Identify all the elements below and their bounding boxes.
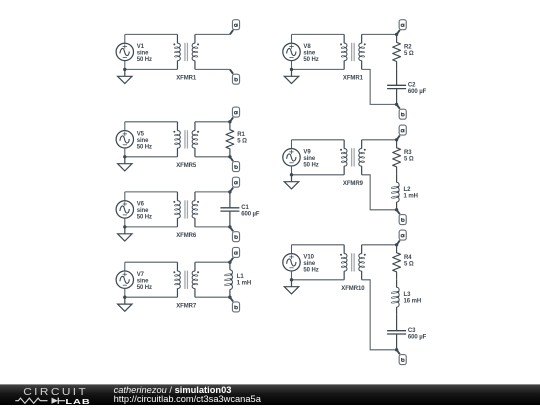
wire source V8 vertical bottom	[291, 61, 293, 70]
node a flag	[397, 20, 407, 35]
wire secondary top	[195, 261, 230, 263]
junction node a	[395, 33, 398, 36]
junction at V5 minus	[123, 155, 126, 158]
svg-text:XFMR1: XFMR1	[343, 76, 364, 82]
wire bottom left V9	[292, 174, 345, 176]
wire source V7 vertical bottom	[124, 288, 126, 297]
XFMR6 primary phase dot	[173, 201, 175, 203]
node b flag	[230, 297, 240, 312]
capacitor C2	[387, 69, 427, 104]
svg-text:5 Ω: 5 Ω	[237, 138, 247, 144]
wire source V5 vertical top	[124, 122, 126, 131]
wire top left V8	[292, 33, 345, 35]
wire secondary top	[195, 191, 230, 193]
XFMR7 core	[184, 271, 186, 289]
svg-text:V8: V8	[303, 44, 311, 50]
svg-text:sine: sine	[137, 208, 149, 214]
wire secondary top	[362, 244, 397, 246]
junction node b	[395, 103, 398, 106]
node b flag	[230, 157, 240, 172]
wire top left V1	[125, 33, 178, 35]
XFMR7 secondary phase dot	[197, 271, 199, 273]
node a flag	[230, 107, 240, 122]
logo LAB text	[65, 397, 90, 406]
svg-text:XFMR9: XFMR9	[343, 181, 364, 187]
svg-text:L2: L2	[404, 187, 412, 193]
ground	[118, 69, 132, 83]
XFMR9 primary phase dot	[340, 149, 342, 151]
wire source V1 vertical top	[124, 34, 126, 43]
XFMR10 secondary phase dot	[364, 254, 366, 256]
capacitor C3	[387, 315, 427, 350]
XFMR5 secondary phase dot	[197, 131, 199, 133]
svg-text:sine: sine	[137, 51, 149, 57]
wire secondary bottom	[195, 68, 230, 70]
junction at V1 minus	[123, 68, 126, 71]
XFMR6 core	[184, 200, 186, 218]
inductor L3	[391, 280, 421, 315]
wire secondary bottom	[195, 226, 230, 228]
wire source V7 vertical top	[124, 262, 126, 271]
XFMR1 secondary winding	[361, 34, 363, 43]
node a flag	[230, 177, 240, 192]
resistor R4	[393, 245, 414, 280]
svg-text:sine: sine	[303, 156, 315, 162]
svg-text:C3: C3	[408, 328, 416, 334]
svg-text:5 Ω: 5 Ω	[404, 51, 414, 57]
wire top left V7	[125, 261, 178, 263]
CircuitLab logo text	[23, 387, 88, 398]
junction node a	[228, 120, 231, 123]
wire secondary return	[362, 280, 397, 350]
XFMR5 primary winding	[176, 122, 178, 131]
ground	[118, 227, 132, 241]
wire bottom left V7	[125, 296, 178, 298]
XFMR6 secondary phase dot	[197, 201, 199, 203]
junction node b	[395, 208, 398, 211]
XFMR7 secondary winding	[194, 262, 196, 271]
node b flag	[397, 104, 407, 119]
svg-text:XFMR1: XFMR1	[176, 76, 197, 82]
XFMR10 secondary winding	[361, 245, 363, 254]
XFMR6 primary winding	[176, 192, 178, 201]
svg-text:V10: V10	[303, 255, 314, 261]
ground	[118, 297, 132, 311]
XFMR1 primary winding	[176, 34, 178, 43]
XFMR1 primary phase dot	[340, 43, 342, 45]
svg-text:L3: L3	[404, 292, 412, 298]
XFMR9 core	[351, 148, 353, 166]
svg-text:50 Hz: 50 Hz	[303, 57, 318, 63]
node a flag	[397, 230, 407, 245]
voltage source V8	[283, 43, 300, 60]
wire secondary top	[362, 139, 397, 141]
junction at V7 minus	[123, 296, 126, 299]
svg-text:sine: sine	[303, 51, 315, 57]
transformer XFMR7	[173, 262, 199, 309]
node a flag	[230, 20, 240, 35]
svg-text:V6: V6	[137, 202, 145, 208]
wire secondary bottom	[195, 156, 230, 158]
wire top left V5	[125, 121, 178, 123]
voltage source V1	[116, 43, 133, 60]
svg-text:R3: R3	[404, 150, 412, 156]
XFMR1 secondary phase dot	[197, 43, 199, 45]
svg-text:1 mH: 1 mH	[404, 193, 418, 199]
voltage source V7	[116, 271, 133, 288]
transformer XFMR10	[340, 245, 366, 292]
svg-text:http://circuitlab.com/ct3sa3wc: http://circuitlab.com/ct3sa3wcana5a	[114, 394, 262, 404]
XFMR10 primary phase dot	[340, 254, 342, 256]
svg-text:600 µF: 600 µF	[408, 334, 427, 340]
wire source V1 vertical bottom	[124, 61, 126, 70]
svg-text:sine: sine	[137, 278, 149, 284]
XFMR9 primary winding	[343, 140, 345, 149]
junction node b	[228, 225, 231, 228]
wire bottom left V5	[125, 156, 178, 158]
svg-text:50 Hz: 50 Hz	[137, 285, 152, 291]
wire bottom left V1	[125, 68, 178, 70]
svg-text:5 Ω: 5 Ω	[404, 156, 414, 162]
transformer XFMR1	[340, 34, 366, 81]
wire source V9 vertical top	[291, 140, 293, 149]
transformer XFMR6	[173, 192, 199, 239]
wire top left V6	[125, 191, 178, 193]
XFMR9 secondary winding	[361, 140, 363, 149]
svg-text:R4: R4	[404, 255, 412, 261]
svg-text:R2: R2	[404, 45, 412, 51]
junction at V10 minus	[290, 278, 293, 281]
svg-text:600 µF: 600 µF	[408, 89, 427, 95]
XFMR1 core	[351, 43, 353, 61]
node b flag	[397, 350, 407, 365]
svg-text:XFMR7: XFMR7	[176, 303, 197, 309]
svg-text:50 Hz: 50 Hz	[303, 268, 318, 274]
svg-text:V5: V5	[137, 132, 145, 138]
voltage source V5	[116, 131, 133, 148]
ground	[284, 175, 298, 189]
wire source V10 vertical top	[291, 245, 293, 254]
XFMR6 secondary winding	[194, 192, 196, 201]
wire source V10 vertical bottom	[291, 271, 293, 280]
junction node a	[395, 243, 398, 246]
svg-text:1 mH: 1 mH	[237, 281, 251, 287]
wire source V9 vertical bottom	[291, 166, 293, 175]
XFMR7 primary winding	[176, 262, 178, 271]
resistor R2	[393, 34, 414, 69]
wire bottom left V6	[125, 226, 178, 228]
XFMR5 secondary winding	[194, 122, 196, 131]
wire source V6 vertical top	[124, 192, 126, 201]
XFMR7 primary phase dot	[173, 271, 175, 273]
svg-text:sine: sine	[303, 261, 315, 267]
junction at V6 minus	[123, 225, 126, 228]
node b flag	[230, 69, 240, 84]
wire source V5 vertical bottom	[124, 148, 126, 157]
junction node a	[228, 190, 231, 193]
inductor L1	[224, 262, 251, 297]
svg-text:600 µF: 600 µF	[241, 212, 260, 218]
wire top left V10	[292, 244, 345, 246]
node b flag	[397, 210, 407, 225]
svg-text:R1: R1	[237, 132, 245, 138]
svg-text:XFMR6: XFMR6	[176, 233, 197, 239]
XFMR10 core	[351, 253, 353, 271]
wire top left V9	[292, 139, 345, 141]
wire secondary top	[362, 33, 397, 35]
svg-text:XFMR5: XFMR5	[176, 163, 197, 169]
XFMR1 core	[184, 43, 186, 61]
transformer XFMR1	[173, 34, 199, 81]
junction node a	[395, 138, 398, 141]
svg-text:C2: C2	[408, 83, 416, 89]
wire bottom left V10	[292, 279, 345, 281]
XFMR9 secondary phase dot	[364, 149, 366, 151]
wire source V6 vertical bottom	[124, 218, 126, 227]
junction at V8 minus	[290, 68, 293, 71]
XFMR5 core	[184, 130, 186, 148]
svg-text:50 Hz: 50 Hz	[303, 163, 318, 169]
voltage source V6	[116, 201, 133, 218]
svg-text:V7: V7	[137, 272, 145, 278]
svg-text:50 Hz: 50 Hz	[137, 57, 152, 63]
junction node b	[395, 348, 398, 351]
wire bottom left V8	[292, 68, 345, 70]
resistor R1	[226, 122, 247, 157]
svg-text:50 Hz: 50 Hz	[137, 215, 152, 221]
svg-text:sine: sine	[137, 138, 149, 144]
svg-text:L1: L1	[237, 274, 245, 280]
svg-text:V9: V9	[303, 150, 311, 156]
wire secondary top	[195, 121, 230, 123]
wire secondary return	[362, 175, 397, 210]
wire secondary return	[362, 69, 397, 104]
wire secondary bottom	[195, 296, 230, 298]
svg-text:50 Hz: 50 Hz	[137, 145, 152, 151]
wire source V8 vertical top	[291, 34, 293, 43]
ground	[118, 157, 132, 171]
node a flag	[230, 247, 240, 262]
svg-text:CIRCUIT: CIRCUIT	[23, 387, 88, 398]
junction at V9 minus	[290, 173, 293, 176]
svg-text:16 mH: 16 mH	[404, 298, 422, 304]
XFMR1 primary phase dot	[173, 43, 175, 45]
resistor R3	[393, 140, 414, 175]
junction node b	[228, 296, 231, 299]
inductor L2	[391, 175, 418, 210]
ground	[284, 280, 298, 294]
voltage source V10	[283, 254, 300, 271]
svg-text:XFMR10: XFMR10	[341, 286, 365, 292]
XFMR10 primary winding	[343, 245, 345, 254]
XFMR5 primary phase dot	[173, 131, 175, 133]
svg-text:LAB: LAB	[65, 397, 90, 405]
XFMR1 secondary winding	[194, 34, 196, 43]
transformer XFMR5	[173, 122, 199, 169]
voltage source V9	[283, 149, 300, 166]
ground	[284, 69, 298, 83]
capacitor C1	[220, 192, 260, 227]
wire secondary top	[195, 33, 230, 35]
XFMR1 primary winding	[343, 34, 345, 43]
svg-text:C1: C1	[241, 205, 249, 211]
junction node a	[228, 261, 231, 264]
svg-text:5 Ω: 5 Ω	[404, 261, 414, 267]
CircuitLab logo resistor-diode symbol	[15, 398, 47, 403]
node a flag	[397, 125, 407, 140]
node b flag	[230, 227, 240, 242]
XFMR1 secondary phase dot	[364, 43, 366, 45]
transformer XFMR9	[340, 140, 366, 187]
junction node b	[228, 155, 231, 158]
svg-text:V1: V1	[137, 44, 145, 50]
